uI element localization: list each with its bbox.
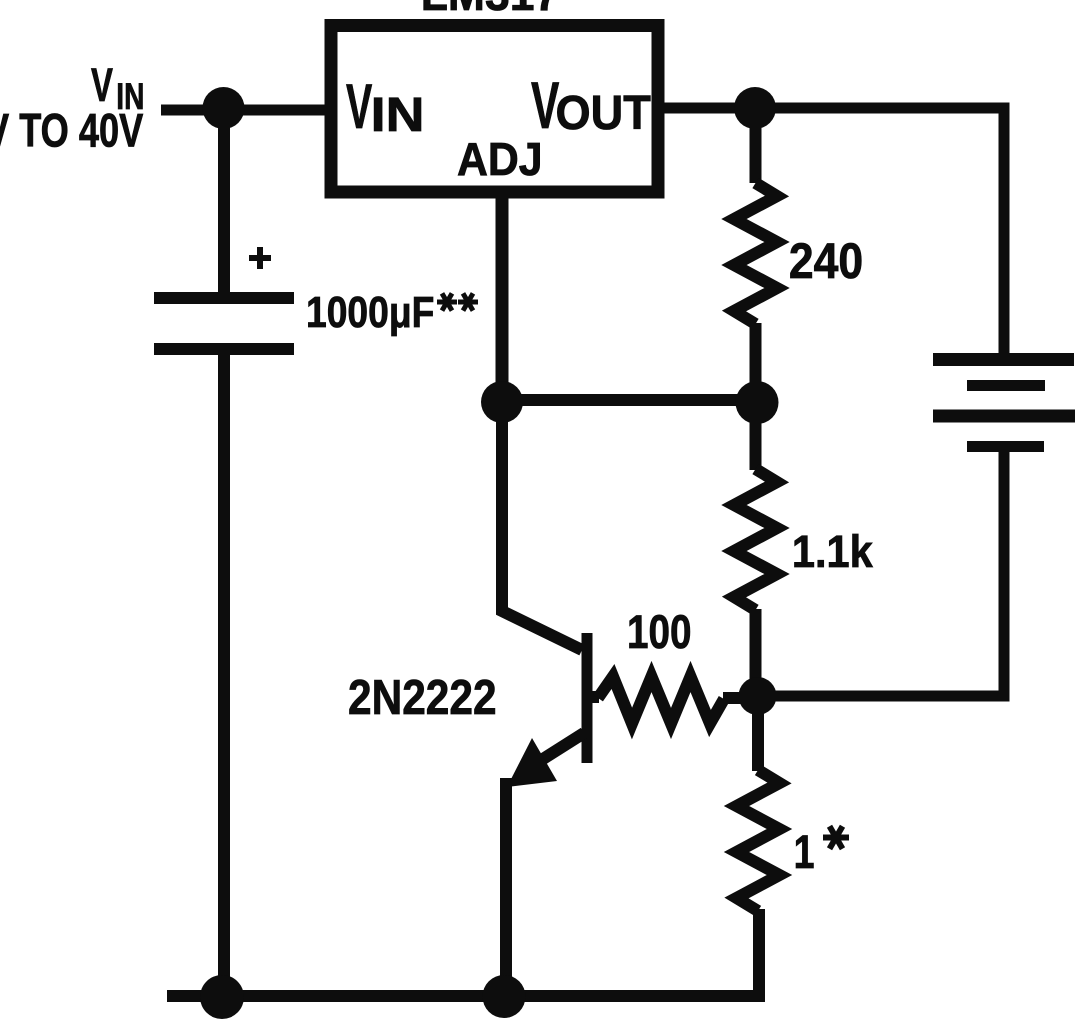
node ground center junction (483, 975, 526, 1018)
asterisk star 1 (437, 293, 457, 310)
resistor R3 1 ohm (737, 770, 780, 911)
wire ADJ pin (496, 195, 509, 401)
svg-text:OUT: OUT (556, 86, 651, 140)
regulator U1 LM317 box (331, 26, 658, 193)
node input junction (203, 87, 245, 129)
wire node B to battery (757, 450, 1004, 696)
battery BT1 plate 2 short (967, 380, 1045, 391)
wire capacitor to ground rail (218, 349, 230, 996)
battery BT1 plate 3 long (933, 410, 1075, 423)
transistor Q1 collector wire (502, 399, 582, 650)
svg-text:IN: IN (371, 88, 425, 142)
wire node A to R2 (750, 402, 762, 470)
svg-text:ADJ: ADJ (457, 134, 543, 185)
wire R1 to node A (750, 323, 762, 402)
wire base stub (587, 691, 599, 703)
wire R2 to node B (750, 609, 762, 696)
wire VIN input (161, 105, 337, 116)
transistor Q1 emitter arrow (507, 738, 557, 787)
wire input node to capacitor (218, 108, 230, 298)
node ground left junction (200, 975, 244, 1019)
node output junction (734, 87, 776, 129)
svg-text:1000μF: 1000μF (306, 287, 434, 337)
capacitor C1 bottom plate (154, 343, 294, 355)
wire R4 to node B (723, 692, 748, 704)
resistor R2 1.1k (734, 469, 777, 610)
battery BT1 plate 4 short (967, 441, 1044, 452)
svg-text:1.1k: 1.1k (792, 528, 874, 578)
svg-text:2N2222: 2N2222 (348, 670, 497, 725)
wire VOUT to R1 (750, 104, 762, 183)
wire ADJ node to resistor node (502, 394, 757, 406)
capacitor C1 top plate (154, 292, 294, 304)
wire R3 to ground rail (167, 909, 759, 996)
wire VOUT output (658, 108, 1004, 365)
capacitor C1 plus sign (249, 247, 271, 269)
wire emitter to ground rail (500, 778, 512, 996)
svg-text:240: 240 (789, 234, 863, 290)
svg-text:V: V (346, 72, 372, 143)
svg-text:100: 100 (627, 607, 692, 659)
resistor R1 240 (734, 183, 777, 324)
wire node B to R3 (752, 696, 764, 771)
transistor Q1 base bar (582, 633, 593, 763)
svg-text:1: 1 (794, 826, 815, 879)
node resistor junction A (736, 381, 779, 424)
svg-text:V TO 40V: V TO 40V (0, 104, 143, 157)
battery BT1 plate 1 long (933, 353, 1074, 366)
svg-text:LM317: LM317 (421, 0, 559, 20)
asterisk star for 1 ohm (823, 826, 849, 848)
node B junction (739, 677, 777, 715)
asterisk star 2 (458, 293, 478, 310)
node ADJ junction (481, 381, 523, 423)
resistor R4 100 (598, 677, 724, 724)
transistor Q1 emitter wire (543, 733, 584, 759)
